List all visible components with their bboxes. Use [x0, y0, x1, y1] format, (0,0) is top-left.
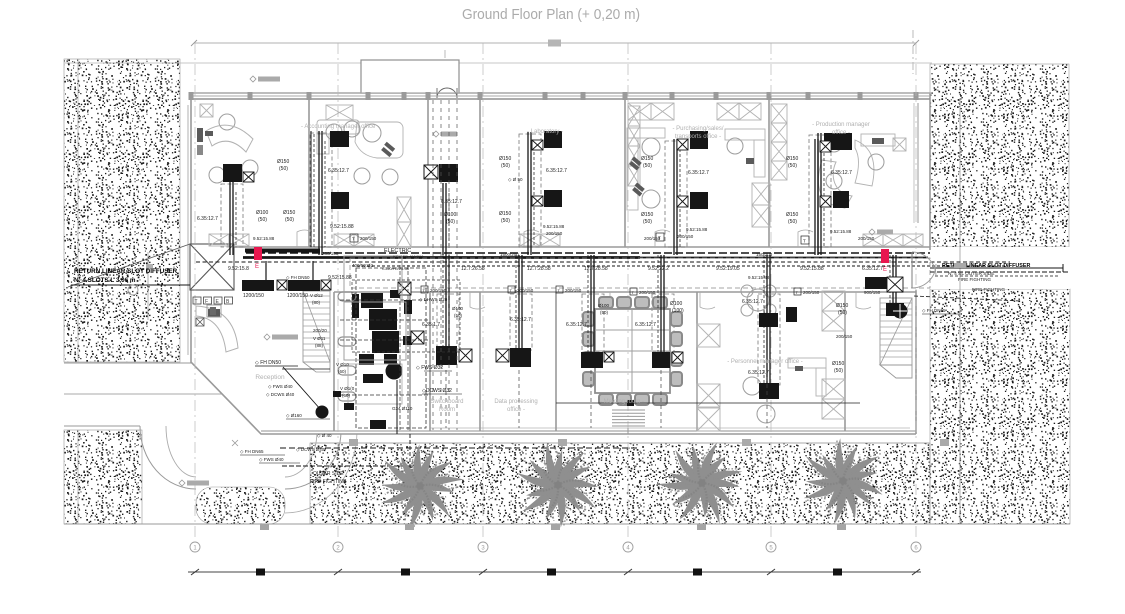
svg-text:Ø100: Ø100 — [444, 212, 456, 218]
svg-text:200/150: 200/150 — [644, 236, 661, 241]
svg-text:6.35:12.7: 6.35:12.7 — [566, 322, 587, 328]
svg-text:6.35:12.7: 6.35:12.7 — [197, 216, 218, 222]
svg-text:Ø150: Ø150 — [277, 159, 289, 165]
svg-text:9.52:15.88: 9.52:15.88 — [748, 275, 770, 280]
svg-text:(50): (50) — [643, 219, 652, 225]
svg-text:200/150: 200/150 — [565, 288, 582, 293]
svg-text:◇ Ø160: ◇ Ø160 — [286, 413, 302, 418]
svg-text:9.52:15.88: 9.52:15.88 — [800, 266, 824, 272]
svg-text:Ø100: Ø100 — [670, 301, 682, 307]
svg-text:G34 Ø110: G34 Ø110 — [392, 406, 413, 411]
svg-text:office -: office - — [507, 407, 525, 413]
svg-text:(50): (50) — [788, 219, 797, 225]
svg-text:200/150: 200/150 — [677, 234, 694, 239]
svg-text:6.35:12.7: 6.35:12.7 — [742, 299, 763, 305]
svg-text:- Laboratory -: - Laboratory - — [527, 129, 563, 135]
svg-text:(50): (50) — [258, 217, 267, 223]
svg-text:E: E — [883, 267, 887, 273]
svg-text:Ø150: Ø150 — [836, 303, 848, 309]
svg-text:6.35:12.7: 6.35:12.7 — [546, 168, 567, 174]
svg-text:9.52:22.2: 9.52:22.2 — [648, 266, 669, 272]
svg-text:◇ DCWS Ø40: ◇ DCWS Ø40 — [296, 447, 325, 452]
svg-text:9.52:15.88: 9.52:15.88 — [253, 236, 275, 241]
svg-text:Room: Room — [439, 407, 455, 413]
svg-text:Ø150: Ø150 — [641, 212, 653, 218]
svg-text:◇ FWS Ø32: ◇ FWS Ø32 — [416, 365, 443, 371]
svg-text:Switchboard: Switchboard — [430, 399, 463, 405]
svg-text:V Ø1(0: V Ø1(0 — [340, 386, 355, 391]
svg-text:Ø150: Ø150 — [786, 212, 798, 218]
svg-text:9.52:15.88: 9.52:15.88 — [830, 229, 852, 234]
svg-text:200/150: 200/150 — [803, 290, 820, 295]
svg-text:12.7:26.58: 12.7:26.58 — [461, 266, 485, 272]
svg-text:6.35:12.7: 6.35:12.7 — [688, 170, 709, 176]
svg-text:◇ FH DN50: ◇ FH DN50 — [255, 360, 281, 366]
svg-text:FIRE FIGHTING: FIRE FIGHTING — [972, 287, 1005, 292]
svg-text:- Production manager: - Production manager — [812, 122, 870, 128]
svg-text:◇ FH DN50: ◇ FH DN50 — [286, 275, 310, 280]
svg-text:Reception: Reception — [255, 374, 285, 381]
svg-text:- Meeting room -: - Meeting room - — [600, 399, 644, 405]
svg-text:6.35:12.7: 6.35:12.7 — [510, 317, 531, 323]
svg-text:OUTER SIDE: OUTER SIDE — [313, 471, 344, 477]
svg-text:office -: office - — [832, 130, 850, 136]
svg-text:(50): (50) — [838, 310, 847, 316]
svg-text:T: T — [803, 239, 806, 244]
svg-text:Ø100: Ø100 — [598, 303, 610, 308]
svg-text:FIRE FIGHTING: FIRE FIGHTING — [958, 277, 991, 282]
svg-text:12.7:28.58: 12.7:28.58 — [584, 266, 608, 272]
svg-text:Ground Floor Plan (+ 0,20 m): Ground Floor Plan (+ 0,20 m) — [462, 6, 640, 23]
svg-text:E: E — [255, 264, 259, 270]
svg-text:◇ Ø 50: ◇ Ø 50 — [508, 177, 523, 182]
svg-text:◇ Ø 40: ◇ Ø 40 — [317, 433, 332, 438]
svg-text:9.52:15.8: 9.52:15.8 — [228, 266, 249, 272]
svg-text:(80): (80) — [312, 300, 321, 305]
svg-text:(50): (50) — [501, 218, 510, 224]
svg-text:(50): (50) — [788, 163, 797, 169]
svg-text:(50): (50) — [643, 163, 652, 169]
svg-text:◇ FH DN65: ◇ FH DN65 — [240, 449, 264, 454]
svg-text:Ø150: Ø150 — [832, 361, 844, 367]
svg-text:9.52:19.05: 9.52:19.05 — [716, 266, 740, 272]
svg-text:(50): (50) — [600, 310, 609, 315]
svg-text:transports office -: transports office - — [675, 134, 721, 140]
svg-text:KCal FB 400/200: KCal FB 400/200 — [393, 254, 424, 259]
svg-text:◇DCWS Ø32: ◇DCWS Ø32 — [422, 388, 452, 394]
svg-text:FIRE FIGHTING: FIRE FIGHTING — [310, 479, 347, 485]
svg-text:200/150: 200/150 — [858, 236, 875, 241]
svg-text:Ø150: Ø150 — [786, 156, 798, 162]
svg-text:◇ FWS Ø40: ◇ FWS Ø40 — [259, 457, 284, 462]
svg-text:V Ø10: V Ø10 — [336, 362, 349, 367]
svg-text:◇ FH DN65: ◇ FH DN65 — [922, 308, 946, 313]
svg-text:T: T — [195, 299, 198, 305]
svg-text:V Ø12: V Ø12 — [310, 293, 323, 298]
svg-text:◇ DCWS Ø40: ◇ DCWS Ø40 — [266, 392, 295, 397]
svg-text:200/150: 200/150 — [836, 334, 853, 339]
svg-text:1200/150: 1200/150 — [287, 293, 308, 299]
svg-text:F: F — [205, 299, 208, 305]
svg-text:280/150: 280/150 — [322, 251, 339, 256]
svg-text:200/150: 200/150 — [639, 290, 656, 295]
svg-text:◇ DHWS Ø20: ◇ DHWS Ø20 — [419, 297, 448, 302]
svg-text:- Personnel manager office -: - Personnel manager office - — [727, 359, 803, 365]
svg-text:9.52:15.88: 9.52:15.88 — [330, 224, 354, 230]
svg-text:200/150: 200/150 — [546, 231, 563, 236]
svg-text:RETURN LINEAR SLOT DIFFUSER: RETURN LINEAR SLOT DIFFUSER — [74, 268, 178, 275]
svg-text:900/150: 900/150 — [864, 290, 881, 295]
svg-text:6.35:12.7: 6.35:12.7 — [441, 199, 462, 205]
svg-text:Ø150: Ø150 — [283, 210, 295, 216]
svg-text:Ø150: Ø150 — [499, 211, 511, 217]
svg-text:12.7:28.58: 12.7:28.58 — [527, 266, 551, 272]
svg-text:9.52:15.88: 9.52:15.88 — [328, 275, 352, 281]
svg-text:(100): (100) — [672, 308, 684, 314]
svg-text:- Accounting manager office -: - Accounting manager office - — [301, 124, 379, 130]
svg-text:6.35:12.7: 6.35:12.7 — [831, 170, 852, 176]
svg-text:(50): (50) — [279, 166, 288, 172]
svg-text:(60): (60) — [338, 369, 347, 374]
svg-text:Ø100: Ø100 — [452, 306, 464, 311]
svg-text:6.35:12.7: 6.35:12.7 — [635, 322, 656, 328]
svg-text:(60): (60) — [342, 393, 351, 398]
svg-text:N: 4 SLOTS L 3,06 m: N: 4 SLOTS L 3,06 m — [74, 277, 136, 284]
svg-text:6.35:12.7: 6.35:12.7 — [862, 266, 883, 272]
svg-text:6.35:1.7: 6.35:1.7 — [422, 322, 440, 328]
svg-text:(50): (50) — [446, 219, 455, 225]
svg-text:6.35:12.7: 6.35:12.7 — [748, 370, 769, 376]
svg-text:200/150: 200/150 — [360, 236, 377, 241]
svg-text:1500/200: 1500/200 — [500, 252, 519, 257]
svg-text:◇ FWS Ø40: ◇ FWS Ø40 — [268, 384, 293, 389]
svg-text:(88): (88) — [315, 343, 324, 348]
svg-text:(50): (50) — [501, 163, 510, 169]
svg-text:V Ø11: V Ø11 — [313, 336, 326, 341]
svg-text:(50): (50) — [285, 217, 294, 223]
svg-text:Data processing: Data processing — [494, 399, 537, 405]
svg-text:T: T — [352, 237, 355, 242]
svg-text:Ø150: Ø150 — [641, 156, 653, 162]
svg-text:6.35:12.7: 6.35:12.7 — [328, 168, 349, 174]
svg-text:400/50:Ø2: 400/50:Ø2 — [352, 263, 374, 268]
svg-text:9.52:15.88: 9.52:15.88 — [543, 224, 565, 229]
svg-text:9.52:15.88: 9.52:15.88 — [686, 227, 708, 232]
svg-text:200/20: 200/20 — [313, 328, 327, 333]
svg-text:C150/FB:28.58: C150/FB:28.58 — [382, 266, 410, 271]
svg-text:Ø100: Ø100 — [256, 210, 268, 216]
svg-text:(50): (50) — [454, 313, 463, 318]
svg-text:(50): (50) — [834, 368, 843, 374]
svg-text:- Purchasing/sales/: - Purchasing/sales/ — [672, 126, 723, 132]
svg-text:1200/150: 1200/150 — [243, 293, 264, 299]
svg-text:Ø150: Ø150 — [499, 156, 511, 162]
svg-text:200/150: 200/150 — [430, 288, 447, 293]
svg-text:150/200: 150/200 — [756, 252, 773, 257]
svg-text:200/150: 200/150 — [517, 288, 534, 293]
